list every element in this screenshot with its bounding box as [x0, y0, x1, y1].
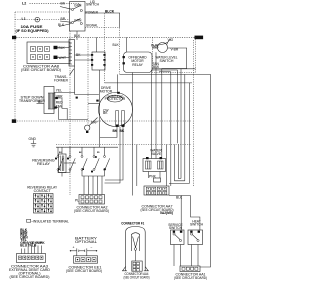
svg-text:BR: BR [61, 17, 66, 21]
svg-text:CONNECTOR F1: CONNECTOR F1 [121, 221, 144, 225]
transformer right leads with labels [54, 89, 67, 120]
reversing relay contact table [27, 185, 58, 213]
dashed bus lower [56, 144, 192, 146]
svg-text:MOTOR: MOTOR [100, 90, 113, 94]
svg-text:PROTECTOR: PROTECTOR [105, 97, 126, 101]
wire motor left lead [54, 92, 99, 94]
switch contact lower in lid switch [71, 18, 82, 24]
svg-text:BLK: BLK [113, 43, 120, 47]
wire valve to AA7 small header [149, 172, 161, 183]
svg-text:(IF SO EQUIPPED): (IF SO EQUIPPED) [16, 29, 49, 33]
svg-text:(SEE CIRCUIT BOARD): (SEE CIRCUIT BOARD) [21, 68, 61, 72]
capacitor C1 [85, 118, 99, 134]
wire L1 dashed left stub [15, 19, 35, 21]
svg-text:SWITCH: SWITCH [160, 59, 175, 63]
svg-text:PL: PL [75, 199, 79, 203]
svg-text:V-BR: V-BR [171, 48, 179, 52]
wire TAN lead inside enclosure [153, 62, 171, 72]
insulated terminal legend [27, 219, 69, 223]
svg-text:SWITCH: SWITCH [169, 226, 183, 230]
connector AA8 [27, 42, 70, 64]
transformer T1 step down [44, 87, 55, 114]
svg-text:WHT: WHT [59, 56, 67, 60]
connector AA2 label [74, 206, 109, 214]
svg-text:CONTACT: CONTACT [34, 189, 51, 193]
pin BLK of connector AA8 [54, 46, 66, 50]
reversing relay label [32, 158, 55, 166]
svg-text:BLCK: BLCK [105, 10, 115, 14]
wire motor bottom lead left [100, 127, 117, 137]
svg-text:VBR: VBR [56, 94, 63, 98]
wires contacts to connector AA2 [84, 176, 102, 195]
water level switch label [156, 55, 178, 62]
wires into connector AA3 [22, 246, 42, 254]
motor brush bar right [122, 111, 125, 126]
wire transformer secondary bottom run [59, 119, 89, 121]
svg-text:+: + [73, 246, 75, 250]
fluorescent lamp assembly F1 [122, 227, 149, 272]
pin WHT of connector AA8 [54, 56, 67, 60]
step down transformer label [19, 95, 46, 103]
svg-text:(SEE CIRCUIT BOARD): (SEE CIRCUIT BOARD) [66, 269, 102, 273]
wire PUR lead [151, 44, 159, 159]
wire lid switch left leads [58, 2, 71, 28]
water level switch dashed enclosure [153, 37, 196, 72]
svg-text:–INSULATED TERMINAL: –INSULATED TERMINAL [31, 219, 69, 223]
connector AA7 [144, 186, 169, 195]
wire branch to AA7 [136, 145, 138, 187]
wire AA8 pin BLK to header [58, 47, 70, 49]
drive motor M1 [99, 93, 133, 127]
svg-text:L2: L2 [22, 2, 26, 6]
svg-text:PNK: PNK [149, 174, 157, 178]
wire filter to contact bus [99, 70, 101, 147]
drive motor label [100, 86, 113, 93]
svg-text:(SEE CIRCUIT BOARD): (SEE CIRCUIT BOARD) [174, 276, 207, 280]
svg-text:GRN: GRN [74, 3, 82, 7]
wire transformer vertical feed [74, 66, 76, 92]
wire vertical to filter box [96, 37, 98, 52]
lid switch label [86, 0, 100, 7]
wire V-BR lead [162, 48, 187, 157]
wire motor bottom lead outer [105, 127, 121, 183]
pressure switch S2 water level [158, 42, 168, 52]
svg-text:BK: BK [113, 129, 118, 133]
wire relay output BLK [152, 65, 196, 69]
relay K1 offboard motor relay [124, 52, 153, 73]
wire dashed vertical through cap [87, 37, 89, 125]
svg-text:BLK: BLK [58, 23, 65, 27]
connector AA3 label [9, 264, 51, 279]
circuit board dashed border top edge [15, 11, 70, 13]
wire cap to motor lead [88, 103, 100, 105]
svg-text:SWITCH: SWITCH [86, 3, 100, 7]
wire long run to far right [120, 73, 211, 75]
wire vertical to relay [117, 74, 119, 93]
main dashed bus wire [14, 36, 197, 38]
svg-text:GND: GND [29, 137, 37, 141]
svg-text:POWER: POWER [86, 11, 99, 15]
wire dashed vertical stub [119, 28, 121, 75]
wire motor bottom lead right [105, 127, 123, 181]
switch contact upper in lid switch [71, 3, 82, 11]
wire vertical right edge to bottom [200, 74, 211, 267]
pin on motor feed [76, 97, 78, 99]
wire relay bottom to AA7 [131, 73, 133, 196]
motor protector ellipse [105, 95, 126, 102]
water valve solenoid assembly [143, 148, 166, 171]
svg-text:TAN: TAN [56, 104, 63, 108]
junction marker left of dashed bus [12, 36, 16, 39]
connector F1 lower label [124, 272, 150, 280]
connector EE1 [74, 253, 98, 263]
wire motor top leads [96, 92, 124, 127]
wires right of valve [167, 72, 190, 186]
svg-text:BLK: BLK [176, 196, 183, 200]
wire dashed lid switch lower output [85, 27, 120, 29]
dashed vertical x70 [69, 31, 71, 195]
connector AA7 label [141, 204, 174, 212]
wire BLCK from lid switch to right [85, 10, 120, 28]
motor brush bar left [116, 111, 119, 126]
connector AA3 wire labels bundle [20, 228, 45, 248]
transformer callout label [54, 69, 74, 83]
wire vertical branch C right side [189, 83, 191, 183]
connector EE1 label [66, 265, 102, 273]
wire lid switch bottom lead [74, 31, 81, 40]
wires switches to connector AA1 [169, 196, 200, 267]
svg-text:(SEE CIRCUIT BOARD): (SEE CIRCUIT BOARD) [74, 209, 109, 213]
ground symbol [29, 137, 37, 147]
svg-text:SIGNAL: SIGNAL [86, 24, 98, 28]
lid switch box [70, 2, 86, 32]
svg-text:PUR: PUR [151, 44, 159, 48]
svg-text:(SEE CIRCUIT BOARD): (SEE CIRCUIT BOARD) [10, 275, 50, 279]
wire contact link segments [58, 163, 105, 176]
svg-text:BK: BK [120, 129, 125, 133]
dashed vertical right of water valve [193, 40, 195, 186]
svg-text:RELAY: RELAY [132, 63, 143, 67]
svg-text:BLK: BLK [59, 46, 66, 50]
wire vertical to motor [104, 13, 106, 83]
svg-text:L1: L1 [22, 17, 26, 21]
connector AA8 label [21, 65, 61, 73]
offboard motor relay label [128, 56, 147, 67]
wire bus lower solid [56, 146, 118, 148]
wire L1 dashed to lid switch [40, 19, 70, 21]
reversing relay contacts row [55, 152, 110, 172]
svg-text:SWITCH: SWITCH [190, 222, 204, 226]
wire vertical branch A2 right side [184, 74, 186, 180]
connector AA3 [17, 254, 46, 263]
svg-text:RELAY: RELAY [37, 162, 51, 166]
wires water level switch to valve [152, 70, 178, 159]
circuit board dashed border bottom edge [13, 120, 192, 122]
svg-text:TAN: TAN [153, 62, 160, 66]
transformer left stubs [37, 100, 45, 104]
wires contacts up to bus [58, 147, 105, 155]
svg-text:−: − [91, 246, 93, 250]
wire relay coil feed [126, 37, 128, 52]
wire mid run right [105, 82, 193, 84]
wire vertical branch A right side [180, 69, 182, 179]
svg-text:BLK: BLK [74, 34, 81, 38]
wire header to filter upper [75, 54, 91, 56]
svg-text:FORMER: FORMER [54, 79, 69, 83]
svg-text:OPTIONAL: OPTIONAL [75, 240, 97, 244]
net label black tag right of dashed bus [195, 36, 204, 40]
wire BLK labels below motor [113, 129, 125, 133]
heat switch S4 [188, 220, 204, 245]
noise filter box [91, 52, 106, 70]
svg-text:(SEE CIRCUIT BOARD): (SEE CIRCUIT BOARD) [124, 275, 150, 279]
circuit board dashed border left edge [14, 12, 16, 121]
svg-text:PK: PK [40, 241, 45, 245]
header strip right of AA8 [69, 40, 75, 67]
svg-text:GRN: GRN [74, 18, 82, 22]
connector AA1 [180, 266, 200, 272]
svg-text:5A2(M5): 5A2(M5) [160, 211, 173, 215]
connector AA2 [75, 195, 105, 205]
svg-text:YEL: YEL [56, 89, 62, 93]
wire AA8 pin WHT to header [58, 56, 70, 58]
service switch S3 [168, 223, 184, 245]
wire L2 dashed run [30, 4, 81, 6]
wire header to filter lower [75, 59, 91, 61]
relay K2 reversing relay coil [59, 154, 67, 173]
junction marker bottom-left corner [12, 119, 16, 123]
fuse 10A [35, 17, 40, 22]
svg-text:VALVE: VALVE [151, 152, 162, 156]
battery B1 optional [70, 237, 98, 254]
connector AA1 label [174, 272, 207, 279]
wire relay to water level switch [152, 44, 160, 48]
